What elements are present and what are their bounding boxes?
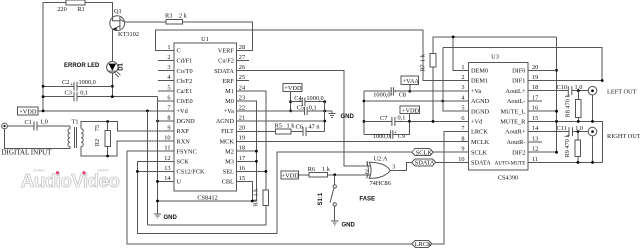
resistor R2 (107, 122, 109, 131)
svg-text:+Vd: +Vd (471, 119, 483, 126)
svg-text:1 k: 1 k (322, 166, 331, 173)
IC U3 CS4390 (469, 62, 528, 170)
power +VDD box right (400, 106, 420, 114)
svg-text:RIGHT OUT: RIGHT OUT (607, 133, 640, 140)
svg-text:16: 16 (239, 165, 245, 172)
svg-text:ERROR LED: ERROR LED (64, 63, 100, 69)
ground symbol GND left (154, 213, 161, 215)
svg-text:DIF1: DIF1 (512, 78, 525, 85)
node AGND junction (323, 120, 326, 123)
svg-text:AoutR+: AoutR+ (505, 129, 526, 136)
svg-text:8: 8 (167, 115, 170, 122)
svg-text:14: 14 (164, 175, 171, 182)
svg-text:+VDD: +VDD (402, 107, 420, 114)
svg-text:47 n: 47 n (309, 124, 321, 131)
svg-text:C5: C5 (297, 104, 304, 111)
capacitor C10 (567, 86, 569, 95)
node DIF2 junction (555, 151, 558, 154)
svg-text:C3: C3 (65, 90, 72, 97)
node AGND/DGND tie junction (441, 100, 444, 103)
wire U1 pin 15 CBL to ground wire (236, 181, 252, 201)
svg-text:24: 24 (239, 84, 246, 91)
svg-text:SDATA: SDATA (415, 159, 435, 166)
wire U1 pin 16 SEL (236, 170, 266, 172)
svg-text:MUTE_R: MUTE_R (500, 119, 526, 126)
wire XOR output to SDATA tag (390, 162, 411, 170)
node MUTE_R junction (555, 120, 558, 123)
node R8 top junction (577, 89, 580, 92)
svg-text:RXN: RXN (177, 138, 191, 145)
svg-text:15: 15 (532, 115, 538, 122)
node D1/C2 junction (111, 85, 114, 88)
svg-text:MCLK: MCLK (471, 139, 490, 146)
svg-text:1: 1 (366, 160, 369, 167)
wire U1 pin 24 M1 to SEL/R4 (236, 91, 266, 190)
svg-text:R7: R7 (419, 64, 426, 71)
svg-text:+Va: +Va (471, 88, 481, 95)
svg-text:0,1: 0,1 (80, 90, 88, 97)
gate U2:A 74HC86 (369, 162, 390, 178)
svg-text:VERF: VERF (218, 48, 235, 55)
wire U1 pin 13 CS12/FCK (137, 170, 174, 172)
node SCK/CS12 junction (136, 170, 139, 173)
svg-text:17: 17 (239, 155, 245, 162)
resistor R5 (276, 129, 291, 134)
wire U1 pin 26 SDATA to XOR input 1 (236, 71, 370, 166)
node +VAA junction (408, 90, 411, 93)
svg-text:11: 11 (532, 156, 538, 163)
capacitor C4 (291, 101, 303, 103)
node DIF0 pin20 junction (555, 69, 558, 72)
svg-text:23: 23 (239, 94, 245, 101)
svg-text:M0: M0 (225, 98, 234, 105)
svg-text:+VAA: +VAA (403, 78, 420, 85)
wire LED cathode down (111, 73, 113, 97)
wire R5 to C6 (291, 131, 303, 133)
wire U1 pin 12 SCK down (137, 152, 411, 233)
svg-text:C7: C7 (380, 115, 387, 122)
wire U3 pin 17 stub (528, 100, 542, 102)
svg-text:3: 3 (392, 164, 395, 171)
wire +VAA riser (409, 85, 411, 92)
svg-text:DIGITAL INPUT: DIGITAL INPUT (2, 149, 53, 157)
wire +VDD mid riser (290, 91, 292, 111)
svg-text:+: + (298, 97, 302, 104)
wire U1 pin 18 M2 (236, 150, 256, 152)
svg-text:CS4390: CS4390 (498, 174, 518, 181)
node C3 left junction (42, 95, 45, 98)
svg-text:C10: C10 (557, 84, 568, 91)
node pin14 ground junction (156, 180, 159, 183)
svg-text:D1: D1 (119, 62, 125, 70)
node cluster ground C7 junction (363, 120, 366, 123)
svg-text:1000,0: 1000,0 (306, 95, 323, 102)
svg-text:FSYNC: FSYNC (177, 148, 197, 155)
wire +VDD to R6 (299, 174, 309, 176)
resistor R4 (263, 190, 268, 206)
svg-text:C9: C9 (398, 133, 405, 140)
svg-text:FASE: FASE (359, 196, 375, 202)
wire ground rail vertical (157, 97, 159, 214)
connector LEFT OUT (588, 86, 597, 95)
wire C9 to +VDD riser (393, 121, 410, 134)
svg-text:220: 220 (57, 6, 66, 13)
capacitor C6 (302, 127, 304, 136)
node C2 left junction (42, 85, 45, 88)
svg-text:0,1: 0,1 (309, 104, 317, 111)
wire U3 pin 15 MUTE_R shield rail (528, 121, 603, 162)
svg-text:14: 14 (532, 125, 539, 132)
svg-text:+VDD: +VDD (282, 173, 300, 180)
svg-text:Cu/F2: Cu/F2 (218, 58, 234, 65)
node R9 top junction (577, 130, 580, 133)
wire analog ground vertical (324, 102, 326, 132)
svg-text:+: + (70, 82, 74, 89)
svg-text:13: 13 (532, 135, 538, 142)
svg-text:18: 18 (239, 145, 245, 152)
wire LEFT OUT shield riser (592, 95, 594, 121)
svg-text:28: 28 (239, 44, 245, 51)
svg-text:3: 3 (461, 84, 464, 91)
svg-text:MCK: MCK (220, 138, 235, 145)
svg-text:9: 9 (167, 125, 170, 132)
node +VDD/+Vd junction (408, 120, 411, 123)
svg-text:C2: C2 (62, 79, 69, 86)
svg-text:19: 19 (532, 74, 538, 81)
svg-text:26: 26 (239, 64, 245, 71)
svg-text:7: 7 (461, 125, 464, 132)
svg-text:R2: R2 (94, 139, 101, 146)
wire U1 pin 8 DGND to ground rail (158, 120, 175, 122)
node +VDD rail / R4 bus branch (146, 110, 149, 113)
wire C10 to LEFT OUT connector (572, 90, 588, 92)
svg-text:LEFT OUT: LEFT OUT (607, 89, 637, 96)
logo AudioVideo watermark (21, 169, 120, 192)
wire U1 pin 19 MCK to U3 MCLK (236, 141, 468, 143)
svg-text:Cd/F1: Cd/F1 (177, 58, 193, 65)
svg-text:SCLK: SCLK (471, 149, 488, 156)
svg-text:16: 16 (532, 105, 538, 112)
node R8 bottom junction (577, 120, 580, 123)
IC U1 CS8412 (174, 43, 236, 191)
svg-text:C0/E0: C0/E0 (177, 98, 193, 105)
svg-text:SDATA: SDATA (214, 68, 234, 75)
wire U3 pin 14 AoutR+ to C11 (528, 131, 569, 133)
wire U1 pin 27 stub (236, 60, 249, 62)
svg-text:1 k: 1 k (287, 123, 296, 130)
wire RIGHT OUT shield riser (592, 136, 594, 163)
wire +VDD right riser (408, 114, 410, 122)
svg-text:SEL: SEL (223, 169, 234, 176)
wire DIF0 riser to U3 pin 20 (528, 37, 557, 152)
svg-text:12: 12 (532, 146, 538, 153)
svg-text:ERF: ERF (222, 78, 234, 85)
svg-text:SDATA: SDATA (471, 160, 491, 167)
resistor R8 (577, 91, 579, 100)
svg-text:R8 470 k: R8 470 k (564, 94, 571, 118)
wire SCLK tag to U3 pin 9 (433, 151, 469, 153)
svg-text:+: + (394, 88, 398, 95)
svg-text:C6: C6 (296, 124, 303, 131)
wire U3 pin 1 DEM0 riser (453, 37, 468, 70)
wire U3 pin 7 LRCK riser to bottom bus (432, 132, 469, 244)
capacitor C1 (7, 125, 34, 127)
svg-text:6: 6 (167, 94, 170, 101)
wire +VDD branch vertical (146, 111, 148, 225)
svg-text:C: C (177, 48, 181, 55)
svg-text:AGND: AGND (216, 118, 235, 125)
svg-text:1: 1 (461, 64, 464, 71)
svg-text:Q1: Q1 (114, 8, 122, 15)
switch S1:1 (334, 175, 336, 185)
svg-text:18: 18 (532, 84, 538, 91)
node R2 top junction (106, 120, 109, 123)
svg-text:R1: R1 (77, 6, 84, 13)
transistor Q1 (110, 16, 125, 31)
svg-text:R3: R3 (165, 13, 172, 20)
node cluster ground AGND junction (363, 100, 366, 103)
svg-text:20: 20 (532, 64, 538, 71)
svg-text:74HC86: 74HC86 (370, 180, 391, 187)
svg-text:6: 6 (461, 115, 464, 122)
wire T1 secondary top to RXP (81, 122, 174, 132)
svg-text:KT3102: KT3102 (118, 31, 139, 38)
tag LRCK (412, 240, 432, 247)
wire DIF1 top bus to U3 pin 19 (443, 48, 602, 81)
power +VAA box (401, 76, 419, 85)
svg-text:R9 470 k: R9 470 k (564, 134, 571, 158)
ground symbol GND mid (331, 111, 333, 114)
svg-text:10: 10 (458, 156, 464, 163)
svg-text:AoutL+: AoutL+ (505, 88, 525, 95)
wire U3 pin 16 MUTE_L (528, 110, 557, 112)
node R6/S1 junction (333, 173, 336, 176)
wire U1 pin 20 FILT to R5 (236, 131, 275, 133)
wire cluster ground vertical (363, 91, 365, 134)
resistor R7 (430, 54, 436, 67)
node ground rail bottom junction (156, 200, 159, 203)
svg-text:U3: U3 (491, 54, 499, 61)
tag SCLK (412, 149, 434, 156)
svg-text:S1:1: S1:1 (318, 192, 324, 205)
svg-text:12: 12 (164, 155, 170, 162)
svg-text:DIF0: DIF0 (512, 67, 525, 74)
wire U1 pin 2 stub (158, 60, 174, 62)
svg-text:+VDD: +VDD (19, 108, 37, 115)
svg-text:LRCK: LRCK (415, 241, 432, 248)
svg-text:+VDD: +VDD (284, 85, 302, 92)
node C3 right / D1 junction (111, 95, 114, 98)
wire U3 pin 13 stub (528, 141, 542, 143)
svg-text:5: 5 (461, 105, 464, 112)
svg-text:DGND: DGND (177, 118, 196, 125)
svg-text:C8: C8 (399, 92, 406, 99)
svg-text:Co/T0: Co/T0 (177, 68, 193, 75)
svg-text:CBL: CBL (222, 179, 234, 186)
svg-text:AoutR-: AoutR- (506, 139, 525, 146)
node R2 bottom junction (106, 155, 109, 158)
node +VDD rail / riser junction (42, 110, 45, 113)
capacitor C11 (568, 127, 570, 136)
svg-text:75: 75 (94, 125, 101, 131)
svg-text:C1: C1 (25, 119, 32, 126)
svg-text:САЛОН: САЛОН (33, 169, 45, 173)
svg-text:9: 9 (461, 146, 464, 153)
wire R7 bottom to +VDD net (432, 67, 434, 121)
svg-text:RXP: RXP (177, 128, 190, 135)
svg-text:15: 15 (239, 175, 245, 182)
svg-text:U2:A: U2:A (374, 155, 388, 162)
svg-text:7: 7 (167, 104, 170, 111)
svg-text:M3: M3 (225, 158, 234, 165)
svg-text:2 k: 2 k (179, 13, 188, 20)
svg-text:21: 21 (239, 115, 245, 122)
wire U1 pin 14 U to ground rail (158, 180, 175, 182)
svg-text:ОБЗОР: ОБЗОР (98, 169, 110, 173)
svg-text:2: 2 (167, 54, 170, 61)
svg-text:U: U (177, 179, 182, 186)
svg-text:1000,0: 1000,0 (373, 133, 390, 140)
wire U1 pin 22 +Va to C5 (236, 110, 304, 112)
svg-text:20: 20 (239, 125, 245, 132)
svg-text:1 k: 1 k (419, 53, 426, 62)
node MUTE_L junction (555, 110, 558, 113)
capacitor C8 (364, 90, 391, 92)
resistor R1 (66, 0, 85, 5)
svg-text:2: 2 (461, 74, 464, 81)
wire U3 pin 4 AGND (364, 100, 469, 102)
svg-text:+Vd: +Vd (177, 108, 189, 115)
svg-text:+Va: +Va (224, 108, 234, 115)
power +VDD box left (18, 107, 39, 115)
svg-text:Ca/E1: Ca/E1 (177, 88, 193, 95)
node R7/+Vd junction (432, 120, 435, 123)
wire U3 pin 5 DGND riser (443, 48, 469, 111)
wire U1 pin 21 AGND (236, 120, 324, 122)
svg-text:AudioVideo: AudioVideo (21, 170, 120, 191)
svg-text:25: 25 (239, 74, 245, 81)
wire U1 pin 4 stub (158, 80, 174, 82)
wire U1 pin 23 M0 to ground (236, 101, 256, 201)
power +VDD box bottom (281, 171, 299, 179)
wire R7 top to DEM0/DIF0 bus (433, 37, 557, 54)
svg-text:FILT: FILT (221, 128, 234, 135)
wire +VDD rail to U1 pin 7 (38, 110, 174, 112)
svg-text:AUTO-MUTE: AUTO-MUTE (495, 161, 526, 167)
wire R6 to XOR input 2 (328, 174, 371, 176)
svg-text:Cb/F2: Cb/F2 (177, 78, 193, 85)
capacitor C7 (364, 120, 392, 122)
svg-text:GND: GND (342, 222, 356, 228)
svg-text:GND: GND (341, 114, 355, 120)
wire T1 primary top lead (69, 126, 71, 129)
wire U1 pin 5 stub (158, 90, 174, 92)
node DEM0 bus junction (452, 36, 455, 39)
resistor R3 (166, 19, 183, 24)
svg-text:M1: M1 (225, 88, 234, 95)
svg-text:1000,0: 1000,0 (373, 92, 390, 99)
wire U1 pin 3 stub (158, 70, 174, 72)
node R9 bottom junction (577, 161, 580, 164)
power +VDD box mid (283, 83, 302, 91)
svg-text:19: 19 (239, 135, 245, 142)
wire input shield to T1 primary bottom (5, 129, 71, 149)
LED D1 (107, 61, 118, 72)
svg-text:DEM0: DEM0 (471, 67, 488, 74)
tag SDATA (412, 159, 436, 166)
node M1/SEL junction (265, 170, 268, 173)
svg-text:R6: R6 (308, 166, 315, 173)
capacitor C2 (43, 85, 74, 87)
svg-text:5: 5 (167, 84, 170, 91)
svg-text:SCK: SCK (177, 158, 190, 165)
wire U1 pin 11 FSYNC to bottom LRCK bus (127, 151, 412, 244)
wire ground bottom horizontal (158, 200, 257, 202)
wire U1 pin 25 stub (236, 80, 249, 82)
connector RIGHT OUT (588, 127, 597, 136)
svg-text:T1: T1 (72, 118, 79, 125)
svg-text:0,1: 0,1 (398, 115, 406, 122)
svg-text:13: 13 (164, 165, 170, 172)
wire Q1 collector to R3 (125, 21, 167, 23)
node RIGHT OUT shield junction (591, 161, 594, 164)
svg-text:8: 8 (461, 135, 464, 142)
wire U3 pin 18 AoutL+ to C10 (528, 90, 569, 92)
node C4 junction (289, 100, 292, 103)
svg-text:10: 10 (164, 135, 170, 142)
wire R1 to Q1 base (85, 3, 112, 21)
wire U3 pin 11 AUTO-MUTE rail (528, 161, 603, 163)
connector DIGITAL INPUT (2, 123, 8, 129)
svg-text:GND: GND (164, 215, 178, 221)
wire SDATA tag to U3 pin 10 (436, 161, 469, 163)
wire U3 pin 20 DIF0 (528, 69, 557, 71)
svg-text:DEM1: DEM1 (471, 78, 488, 85)
capacitor C9 (364, 133, 391, 135)
svg-text:SCLK: SCLK (416, 149, 433, 156)
wire T1 secondary bottom to RXN (81, 141, 174, 156)
node DGND ground junction (156, 120, 159, 123)
node +Va wire junction (289, 110, 292, 113)
wire C8 to U3 pin 3 +Va (393, 90, 468, 92)
svg-text:C11: C11 (557, 125, 567, 132)
svg-text:MUTE_L: MUTE_L (501, 108, 526, 115)
svg-text:11: 11 (164, 145, 170, 152)
capacitor C3 (43, 96, 74, 98)
svg-text:1,0: 1,0 (40, 119, 48, 126)
node C5/ground vertical junction (323, 110, 326, 113)
wire +VDD rail top segment to R1 (43, 3, 66, 111)
svg-text:DIF2: DIF2 (512, 149, 525, 156)
wire U1 pin 1 C to top bus to U3 DEM1 (156, 30, 469, 81)
svg-text:AoutL-: AoutL- (507, 98, 526, 105)
svg-text:17: 17 (532, 95, 538, 102)
svg-text:CS12/FCK: CS12/FCK (177, 169, 205, 176)
node LEFT OUT shield junction (591, 120, 594, 123)
capacitor C5 (304, 107, 306, 115)
svg-text:M2: M2 (225, 148, 234, 155)
svg-text:1000,0: 1000,0 (79, 79, 96, 86)
wire Q1 emitter down to LED (111, 30, 113, 62)
svg-text:27: 27 (239, 54, 245, 61)
wire R3 to U1 pin 28 VERF (183, 22, 253, 51)
svg-text:1: 1 (167, 44, 170, 51)
resistor R6 (309, 172, 328, 177)
svg-text:U1: U1 (201, 36, 209, 43)
svg-text:R5: R5 (275, 123, 282, 130)
wire R4 bottom to +VDD bus (147, 206, 266, 226)
node CBL ground junction (251, 200, 254, 203)
